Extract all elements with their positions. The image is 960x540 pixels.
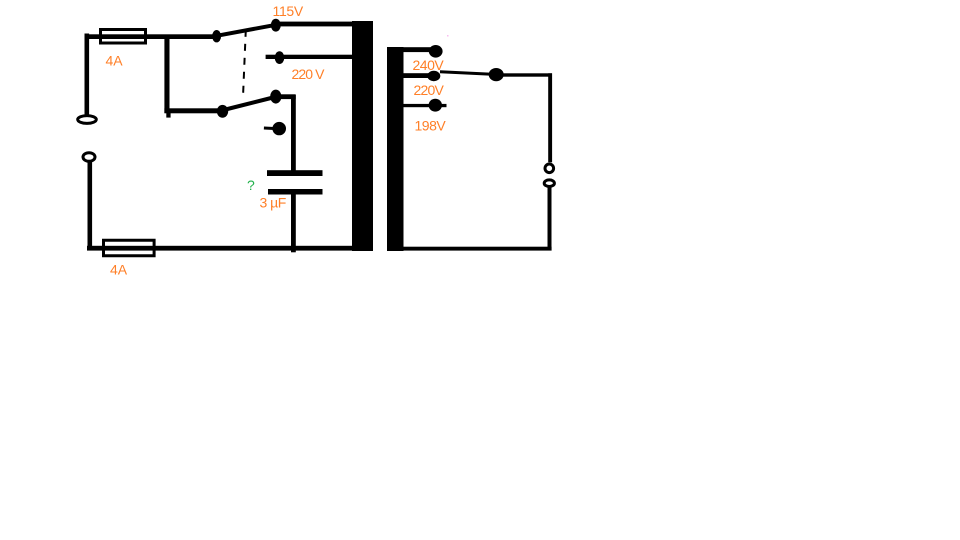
svg-text:220V: 220V xyxy=(414,82,445,98)
wire: junction vertical xyxy=(164,36,169,113)
svg-text:198V: 198V xyxy=(415,118,447,134)
switch S1a arm xyxy=(217,25,276,36)
svg-text:220 V: 220 V xyxy=(292,66,326,82)
wire: 198V tap xyxy=(403,104,429,107)
selector wiper dot xyxy=(489,68,504,81)
wire: stub at unused contact xyxy=(264,127,274,131)
wire: 115V tap to transformer xyxy=(275,22,354,27)
wire: output vertical upper xyxy=(548,73,552,162)
wire: 220V tap to transformer xyxy=(266,55,354,59)
wire: lower horizontal to switch pivot b xyxy=(164,108,224,113)
contact dot: unused lower contact xyxy=(272,122,286,135)
svg-text:115V: 115V xyxy=(273,3,304,19)
switch S1a pivot dot xyxy=(212,30,221,42)
wire: capacitor bottom stem xyxy=(291,195,296,253)
stray pink speck xyxy=(447,35,449,37)
wire: capacitor top stem xyxy=(291,95,296,171)
wire: bottom horizontal (primary return) xyxy=(87,246,352,251)
wire: mains N vertical drop xyxy=(88,162,93,247)
contact dot: 115V tap xyxy=(271,19,281,32)
switch arm: secondary selector xyxy=(440,72,492,75)
svg-text:240V: 240V xyxy=(413,57,445,73)
wire: secondary bottom horizontal xyxy=(402,247,552,251)
fuse F1 (top, 4A) xyxy=(101,30,146,44)
wire: stub right of 198V dot xyxy=(441,104,447,107)
svg-text:4A: 4A xyxy=(110,262,128,278)
terminal: output lower (open ellipse) xyxy=(544,180,554,187)
svg-text:3 µF: 3 µF xyxy=(260,195,286,211)
capacitor C plate bottom xyxy=(268,189,323,195)
contact dot: selected tap (to capacitor) xyxy=(270,90,281,104)
wire: top horizontal from L to switch pivot xyxy=(85,34,219,39)
wire: 240V tap xyxy=(403,47,431,52)
transformer primary winding bar xyxy=(352,21,373,251)
tap dot: 198V xyxy=(429,99,442,112)
wire: output vertical lower xyxy=(548,187,552,249)
wire: contact to capacitor horizontal xyxy=(275,94,296,99)
terminal: mains input N (open circle) xyxy=(83,153,95,162)
switch S1b pivot dot xyxy=(217,105,228,118)
fuse F2 (bottom, 4A) xyxy=(104,240,155,256)
svg-text:?: ? xyxy=(247,177,255,193)
dashed linkage between switch arms xyxy=(243,30,246,98)
switch S1b arm xyxy=(224,97,278,111)
terminal: mains input L (open ellipse) xyxy=(78,116,97,124)
svg-text:4A: 4A xyxy=(106,53,124,69)
wire: wiper to output (horizontal) xyxy=(502,73,552,76)
tap dot: 220V xyxy=(427,71,440,81)
wire: mains L vertical drop xyxy=(85,34,90,115)
tap dot: 240V xyxy=(429,45,443,58)
terminal: output upper (open circle) xyxy=(545,164,554,173)
wire: nub below junction vertical xyxy=(166,113,170,118)
capacitor C plate top xyxy=(267,170,323,176)
transformer secondary winding bar xyxy=(387,47,404,251)
contact dot: 220V tap xyxy=(275,51,285,64)
wire: 220V tap xyxy=(403,73,429,78)
